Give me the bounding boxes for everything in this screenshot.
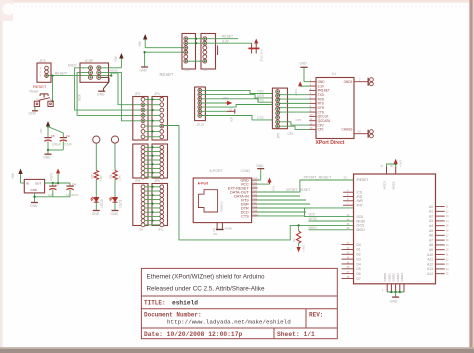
svg-text:SCK: SCK	[78, 93, 82, 101]
ground rail under regulator	[30, 193, 70, 208]
svg-text:100uF/6V: 100uF/6V	[66, 193, 79, 197]
svg-text:RESET: RESET	[33, 84, 47, 89]
svg-text:CTS: CTS	[241, 214, 249, 218]
svg-text:PW2: PW2	[252, 183, 258, 185]
svg-text:GND: GND	[30, 204, 38, 208]
svg-text:GND4: GND4	[400, 273, 404, 282]
svg-text:R3: R3	[292, 238, 296, 242]
chip D0-D7 stubs	[342, 242, 354, 279]
ground under C5/C2	[43, 149, 63, 160]
svg-text:GND: GND	[390, 300, 398, 304]
svg-text:A13: A13	[427, 267, 433, 271]
svg-text:1.0K: 1.0K	[118, 175, 122, 181]
XPort pin 24 pad	[354, 130, 373, 138]
window top-left corner blotch	[0, 0, 13, 21]
svg-text:22: 22	[344, 176, 348, 180]
svg-text:REV:: REV:	[309, 312, 323, 319]
wire TXD JP10 to JP5	[202, 90, 273, 94]
svg-text:SCK: SCK	[357, 215, 365, 219]
svg-text:R1: R1	[109, 174, 113, 178]
LED LED2	[91, 180, 104, 208]
svg-text:XPort Direct: XPort Direct	[316, 140, 345, 146]
svg-text:VCC1: VCC1	[392, 181, 396, 190]
svg-text:GND: GND	[92, 212, 100, 216]
svg-text:XPORT_RESET: XPORT_RESET	[286, 188, 310, 192]
wire DATA-IN	[258, 199, 306, 201]
A-Port right pin stubs	[252, 179, 260, 217]
svg-text:A-Port: A-Port	[198, 181, 210, 185]
svg-text:VCC3: VCC3	[382, 181, 386, 190]
svg-text:C5: C5	[51, 134, 55, 138]
wire MOSI	[309, 217, 354, 221]
wire with off-page pin IO0	[202, 109, 235, 122]
wire DCD	[258, 211, 306, 213]
svg-text:D5: D5	[357, 267, 361, 271]
svg-text:GND: GND	[256, 164, 264, 168]
svg-text:100uF: 100uF	[52, 142, 61, 146]
title block frame	[141, 268, 337, 338]
connector JP4	[133, 144, 148, 183]
svg-text:GND: GND	[43, 155, 51, 159]
connector JP8	[152, 144, 168, 183]
svg-text:+3V3: +3V3	[294, 89, 298, 96]
svg-text:CTS: CTS	[257, 116, 264, 120]
svg-text:JP1: JP1	[40, 59, 46, 63]
svg-text:GND: GND	[97, 92, 105, 96]
svg-text:JP6: JP6	[185, 68, 190, 72]
wire MISO	[309, 226, 354, 230]
svg-text:A6: A6	[429, 234, 433, 238]
svg-text:JP9: JP9	[138, 228, 143, 232]
svg-text:RESET: RESET	[222, 35, 233, 39]
svg-text:A2: A2	[429, 214, 433, 218]
svg-text:GND: GND	[111, 212, 119, 216]
connector ICSP	[80, 59, 109, 83]
wire RTS	[258, 203, 310, 205]
svg-text:1.0K: 1.0K	[99, 175, 103, 181]
svg-text:D4: D4	[357, 262, 361, 266]
svg-text:MOSI: MOSI	[110, 69, 118, 73]
pad circle above R1	[111, 136, 118, 143]
wire regulator output rail	[45, 182, 70, 184]
svg-text:+5V: +5V	[138, 40, 142, 47]
wires JP5 to XPort	[279, 94, 310, 113]
connector JP10	[195, 87, 206, 127]
connector JP5	[272, 88, 287, 138]
svg-text:D0: D0	[357, 243, 361, 247]
window left band	[0, 0, 3, 353]
label RESET under JP6/JP7	[160, 72, 174, 77]
svg-text:LED1: LED1	[119, 199, 123, 207]
wire JP1 to reset switch	[51, 76, 53, 103]
wire JP10 row5 to JP5	[202, 105, 273, 108]
svg-text:(PWR): (PWR)	[225, 227, 233, 231]
svg-text:RESET*: RESET*	[55, 72, 68, 76]
ground under reset switch	[29, 107, 38, 116]
ground at JP6	[140, 51, 184, 73]
svg-text:JP8: JP8	[154, 179, 160, 183]
ground under chip	[390, 297, 399, 304]
svg-text:GND: GND	[29, 112, 37, 116]
svg-text:RTS: RTS	[257, 98, 264, 102]
svg-text:MOSI: MOSI	[357, 219, 366, 223]
wire RTS JP10 to JP5	[202, 98, 273, 102]
svg-text:D2: D2	[357, 253, 361, 257]
svg-text:PW6: PW6	[252, 199, 258, 201]
power +3V3 at regulator output	[49, 169, 60, 184]
resistor R2	[90, 143, 103, 181]
title block texts	[144, 274, 323, 339]
ground under LED1	[111, 202, 119, 216]
svg-text:MISO: MISO	[68, 64, 77, 68]
svg-text:A14: A14	[427, 272, 433, 276]
power +5V at regulator	[11, 169, 24, 184]
svg-text:A4: A4	[429, 224, 433, 228]
svg-text:D3: D3	[357, 257, 361, 261]
svg-text:PW4: PW4	[252, 191, 258, 193]
A-Port bottom pins	[212, 223, 232, 236]
wire DSR JP10 to JP5	[202, 94, 273, 101]
svg-text:JP7: JP7	[204, 68, 209, 72]
ground at XPort pin 1	[299, 62, 309, 82]
svg-text:TXD: TXD	[257, 90, 264, 94]
svg-text:CON2: CON2	[241, 169, 251, 173]
svg-text:JP4: JP4	[135, 179, 141, 183]
svg-text:+5V: +5V	[39, 127, 43, 134]
wire CP1	[280, 126, 310, 136]
svg-text:SHIELD: SHIELD	[220, 200, 224, 212]
window bottom bar	[0, 347, 474, 349]
power +3V3 at XPort	[294, 81, 309, 96]
connector JP7	[201, 34, 216, 73]
power +5V at ICSP	[101, 53, 124, 68]
net 3.3V from JP7 to JP12	[207, 39, 252, 43]
wire CTS to SCK staircase	[258, 208, 354, 217]
svg-text:JP10: JP10	[197, 123, 204, 127]
svg-text:GND: GND	[140, 69, 148, 73]
switch S1 RESET	[30, 84, 54, 106]
svg-text:PW5: PW5	[252, 195, 258, 197]
svg-text:FB: FB	[212, 228, 216, 232]
capacitor C3	[48, 182, 59, 196]
capacitor C5	[44, 134, 60, 150]
chip SPI pin numbers	[347, 214, 350, 230]
ground at A-Port pin1	[256, 164, 264, 180]
svg-text:ICSP: ICSP	[85, 59, 94, 63]
power +5V at JP6	[138, 34, 184, 48]
svg-text:GND: GND	[31, 188, 37, 192]
svg-text:/SCS: /SCS	[357, 224, 365, 228]
svg-text:/INT: /INT	[357, 204, 363, 208]
chip right A0-A14 labels and stubs	[427, 205, 449, 276]
chip /CS /RD /WR /INT stubs	[343, 190, 353, 206]
wire SCK from ICSP to JP2	[77, 73, 141, 116]
svg-text:+3V3: +3V3	[49, 173, 53, 181]
power +5V above C5	[39, 121, 50, 137]
svg-text:A10: A10	[427, 253, 433, 257]
label XPort Direct	[316, 140, 345, 146]
wires between JP4 and JP8	[145, 146, 160, 177]
svg-text:A12: A12	[427, 262, 433, 266]
connector JP6	[182, 34, 196, 73]
chip U$1 shield socket	[354, 174, 436, 284]
ground under LED2	[92, 202, 100, 216]
svg-text:1uF: 1uF	[48, 193, 53, 197]
wire CTS JP10 to JP5	[202, 116, 273, 121]
svg-text:XPORT_RESET: XPORT_RESET	[304, 176, 332, 180]
wires between JP6 and JP7	[185, 38, 206, 63]
svg-text:RESET: RESET	[160, 72, 174, 77]
svg-text:Reset: Reset	[30, 90, 39, 94]
wire MISO from ICSP to JP2	[68, 64, 141, 111]
wire DATA-OUT	[258, 195, 300, 197]
svg-text:A-PORT: A-PORT	[210, 169, 224, 173]
svg-text:MISO: MISO	[357, 228, 366, 232]
svg-text:C2: C2	[66, 134, 70, 138]
chip bottom GND pins	[382, 273, 404, 297]
svg-text:PW8: PW8	[252, 206, 258, 208]
power +3V3 at A-Port VCC	[258, 178, 276, 194]
wire DSR	[258, 207, 310, 209]
svg-text:Sheet: 1/1: Sheet: 1/1	[277, 331, 315, 338]
svg-text:+5V: +5V	[11, 172, 15, 179]
svg-text:TITLE:: TITLE:	[144, 300, 166, 307]
svg-text:/WR: /WR	[357, 199, 364, 203]
svg-text:PW7: PW7	[252, 202, 258, 204]
wires between JP9 and JP11	[145, 186, 160, 225]
svg-text:D6: D6	[357, 272, 361, 276]
wires between JP2 and JP3	[145, 98, 160, 137]
svg-text:Released under CC 2.5, Attrib/: Released under CC 2.5, Attrib/Share-Alik…	[147, 286, 265, 293]
svg-text:0.1uF: 0.1uF	[64, 142, 72, 146]
svg-text:C4: C4	[72, 182, 76, 186]
window top band	[0, 0, 474, 3]
svg-text:GND: GND	[299, 62, 307, 66]
svg-text:JP5: JP5	[276, 133, 280, 139]
ICSP ground diagonal	[97, 77, 109, 96]
net RESET from JP7	[207, 35, 238, 39]
svg-text:Ethernet (XPort/WIZnet) shield: Ethernet (XPort/WIZnet) shield for Ardui…	[147, 274, 265, 281]
LED LED1	[109, 180, 122, 208]
svg-text:IO0: IO0	[230, 116, 234, 121]
svg-text:JP2: JP2	[135, 92, 141, 96]
pad circle above R2	[93, 136, 100, 143]
jumper JP12 with +3V3	[248, 39, 263, 63]
svg-text:SCK: SCK	[309, 213, 316, 217]
A-Port right pin labels	[228, 179, 250, 219]
svg-text:A9: A9	[429, 248, 433, 252]
svg-text:PW3: PW3	[252, 187, 258, 189]
chip top pins to +3V3	[381, 159, 403, 190]
svg-text:A0: A0	[429, 205, 433, 209]
svg-text:3.3V: 3.3V	[222, 39, 230, 43]
svg-text:C3: C3	[55, 182, 59, 186]
svg-text:GND2: GND2	[344, 80, 353, 84]
svg-text:SH: SH	[214, 232, 218, 236]
op module X1 XPort Direct	[316, 72, 354, 139]
connector JP3	[152, 92, 168, 140]
svg-text:R2: R2	[90, 174, 94, 178]
wire CP2	[280, 118, 310, 125]
svg-text:/RESET: /RESET	[357, 178, 369, 182]
svg-text:LED2: LED2	[100, 199, 104, 207]
svg-text:Date: 10/20/2008 12:00:17p: Date: 10/20/2008 12:00:17p	[144, 331, 242, 338]
module CON2 A-Port	[193, 169, 251, 223]
wire from JP3 down to /SCS bus	[164, 126, 354, 240]
svg-text:D7: D7	[357, 277, 361, 281]
connector JP1	[37, 59, 51, 83]
connector JP11	[152, 184, 168, 232]
XPort pin 2 pad	[354, 78, 373, 86]
svg-text:D1: D1	[357, 248, 361, 252]
svg-text:CHASS: CHASS	[341, 128, 352, 132]
wire RESET* continuation to JP2	[111, 73, 141, 105]
XPort left pin stubs	[309, 79, 316, 130]
svg-text:X1: X1	[332, 72, 337, 76]
connector JP2	[133, 92, 148, 140]
svg-text:MISO: MISO	[309, 226, 318, 230]
resistor R3 pull to +3V3	[292, 224, 305, 252]
svg-text:+5V: +5V	[114, 55, 118, 62]
regulator IC1	[24, 179, 44, 193]
chip left pin labels	[357, 178, 369, 281]
RJ45 jack drawing	[198, 190, 223, 212]
svg-text:OUT: OUT	[35, 182, 41, 186]
connector JP9	[133, 184, 148, 232]
wire with off-page arrow IO1	[202, 101, 233, 112]
svg-text:JP3: JP3	[154, 92, 160, 96]
drawing frame dotted line	[15, 6, 468, 8]
svg-text:24: 24	[358, 130, 362, 134]
svg-text:A7: A7	[429, 238, 433, 242]
svg-text:A5: A5	[429, 229, 433, 233]
svg-text:http://www.ladyada.net/make/es: http://www.ladyada.net/make/eshield	[167, 319, 291, 326]
svg-text:+3V3: +3V3	[399, 160, 403, 167]
net XPORT_RESET to chip	[258, 176, 354, 192]
svg-text:A8: A8	[429, 243, 433, 247]
svg-text:CP3: CP3	[296, 118, 302, 122]
wire RESET* from JP1 to ICSP area	[48, 72, 112, 77]
svg-text:IN: IN	[26, 182, 29, 186]
svg-text:+3V3: +3V3	[301, 245, 305, 252]
capacitor C2	[48, 127, 72, 150]
svg-text:CP1: CP1	[318, 128, 324, 132]
svg-text:JP12 3V3: JP12 3V3	[260, 49, 264, 62]
svg-text:A11: A11	[427, 258, 433, 262]
capacitor C4	[66, 182, 79, 196]
svg-text:A1: A1	[429, 210, 433, 214]
svg-text:A3: A3	[429, 219, 433, 223]
resistor R1	[109, 143, 122, 181]
svg-text:Document Number:: Document Number:	[144, 312, 202, 319]
window right border	[469, 0, 472, 349]
stub mark right of JP7	[217, 46, 219, 56]
svg-text:eshield: eshield	[172, 300, 198, 307]
svg-text:CP1: CP1	[288, 132, 294, 136]
svg-text:PW9: PW9	[252, 210, 258, 212]
wire MOSI from ICSP to JP2	[101, 69, 141, 121]
svg-text:MOSI: MOSI	[309, 217, 317, 221]
svg-text:JP11: JP11	[158, 228, 165, 232]
